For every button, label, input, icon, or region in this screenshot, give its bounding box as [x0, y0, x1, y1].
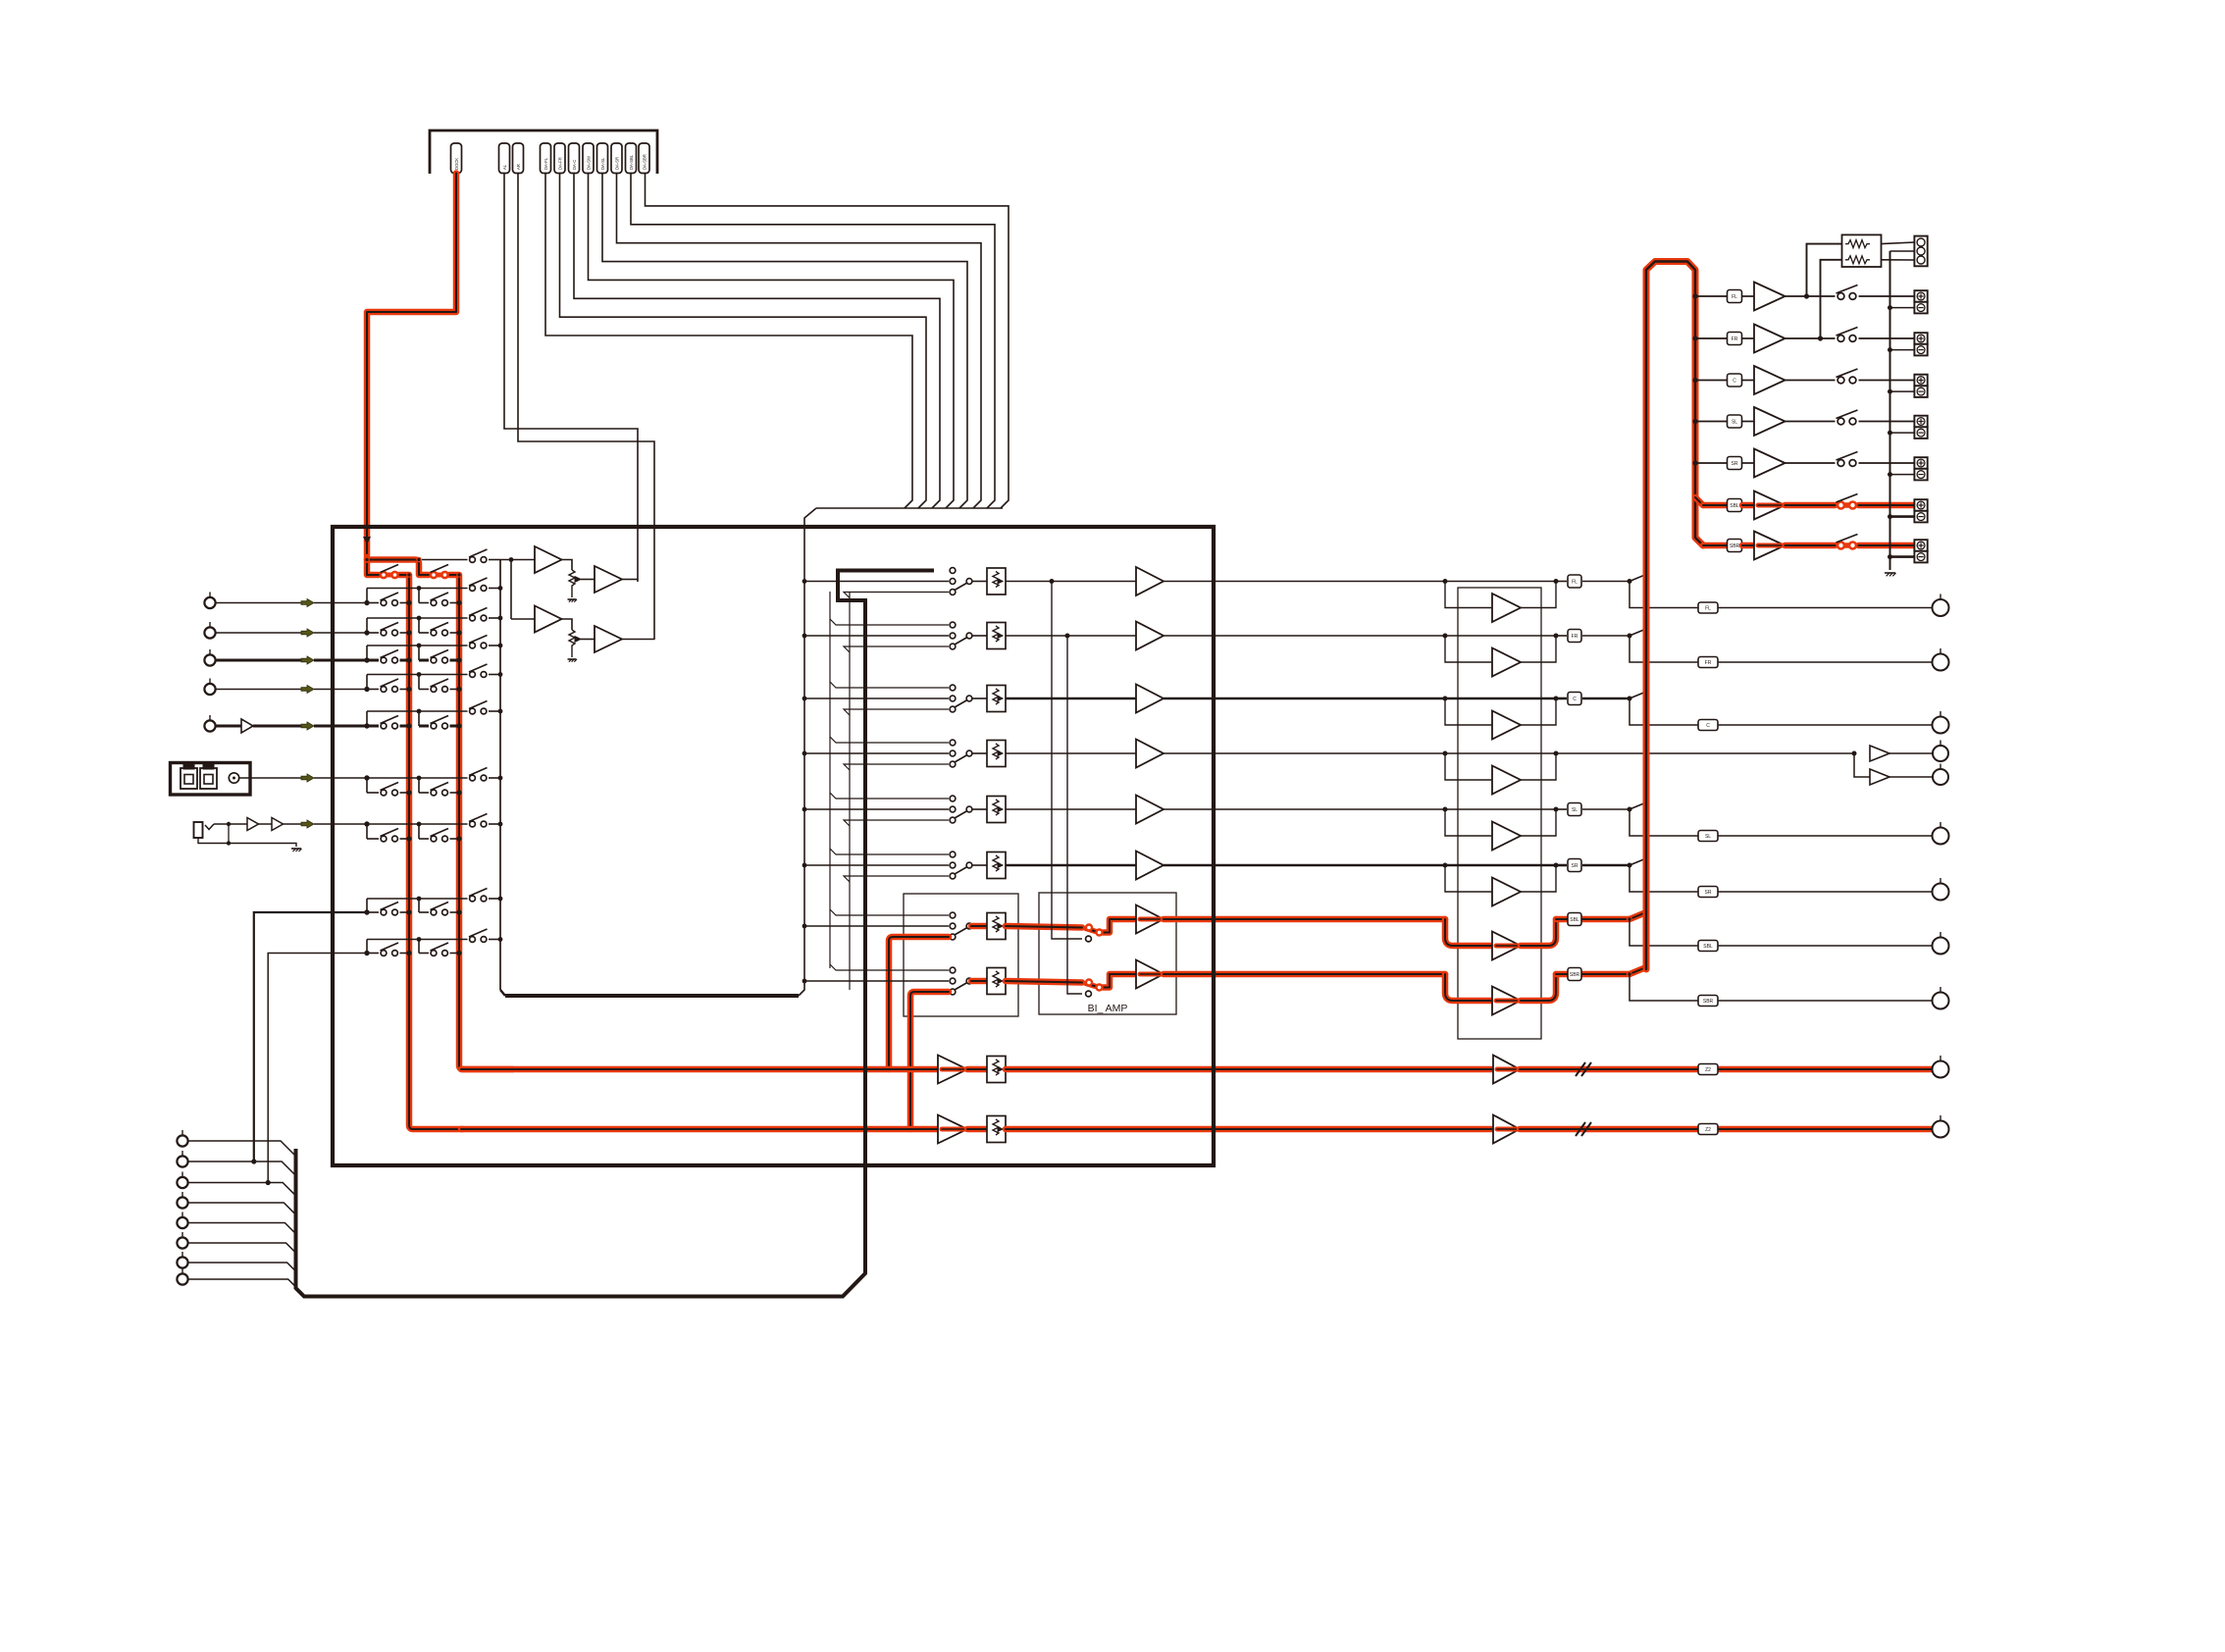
svg-text:C: C — [1733, 378, 1736, 384]
svg-text:SR: SR — [1705, 890, 1712, 896]
svg-text:DA-FL: DA-FL — [543, 157, 548, 170]
svg-text:FR: FR — [1732, 336, 1738, 342]
svg-text:DA-SW: DA-SW — [586, 156, 591, 170]
svg-text:SL: SL — [1572, 807, 1578, 813]
svg-text:C: C — [1573, 697, 1577, 702]
svg-text:SL: SL — [1705, 834, 1711, 840]
svg-text:AR: AR — [516, 164, 521, 170]
svg-text:DA-C: DA-C — [572, 160, 577, 170]
svg-text:SBL: SBL — [1570, 917, 1579, 923]
svg-text:SBL: SBL — [1730, 503, 1739, 509]
svg-text:DOCK: DOCK — [454, 158, 459, 170]
svg-text:FR: FR — [1705, 660, 1712, 666]
svg-text:FL: FL — [1705, 605, 1711, 611]
svg-text:FR: FR — [1572, 634, 1578, 640]
svg-text:DA-SBR: DA-SBR — [642, 154, 647, 170]
svg-text:Z2: Z2 — [1705, 1127, 1711, 1133]
svg-text:BI_ AMP: BI_ AMP — [1088, 1003, 1128, 1014]
svg-text:DA-SBL: DA-SBL — [629, 154, 634, 170]
svg-text:AL: AL — [502, 164, 507, 170]
svg-text:SBR: SBR — [1730, 543, 1740, 549]
svg-text:SR: SR — [1732, 461, 1738, 467]
svg-text:Z2: Z2 — [1705, 1067, 1711, 1073]
svg-text:SBR: SBR — [1570, 972, 1580, 978]
svg-text:SBL: SBL — [1703, 944, 1713, 950]
svg-text:FL: FL — [1572, 579, 1578, 585]
svg-text:DA-FR: DA-FR — [557, 157, 562, 170]
svg-text:FL: FL — [1732, 294, 1737, 300]
svg-text:SBR: SBR — [1703, 999, 1714, 1005]
svg-text:SL: SL — [1732, 419, 1737, 425]
svg-text:DA-SR: DA-SR — [614, 157, 619, 170]
svg-text:SR: SR — [1572, 863, 1578, 869]
svg-text:C: C — [1706, 723, 1710, 729]
svg-text:DA-SL: DA-SL — [600, 157, 605, 170]
